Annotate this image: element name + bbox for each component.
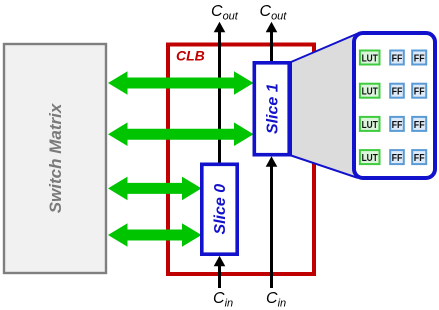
FF cell F4B (412, 150, 426, 164)
LUT cell L3 (360, 117, 380, 131)
wire green bus 3 (Switch Matrix to Slice 0) (108, 177, 202, 201)
svg-text:FF: FF (392, 52, 403, 64)
wedge from Slice 1 to detail view (291, 34, 357, 178)
svg-text:LUT: LUT (362, 119, 379, 131)
slice S0 box (202, 164, 237, 254)
svg-text:Switch Matrix: Switch Matrix (46, 102, 65, 213)
detail view box (354, 33, 435, 178)
wire C_out right (270, 30, 273, 62)
FF cell F2A (390, 84, 404, 98)
wire green bus 4 (Switch Matrix to Slice 0) (108, 223, 202, 247)
svg-text:FF: FF (392, 152, 403, 164)
svg-text:LUT: LUT (362, 152, 379, 164)
LUT cell L1 (360, 51, 380, 65)
wire C_in right (270, 164, 273, 288)
LUT cell L4 (360, 150, 380, 164)
svg-text:FF: FF (414, 152, 425, 164)
FF cell F4A (390, 150, 404, 164)
FF cell F3B (412, 117, 426, 131)
CLB box (168, 45, 314, 275)
switch matrix box (4, 44, 106, 273)
svg-text:LUT: LUT (362, 86, 379, 98)
svg-text:FF: FF (392, 119, 403, 131)
svg-text:FF: FF (414, 52, 425, 64)
svg-text:CLB: CLB (176, 48, 205, 64)
svg-text:FF: FF (414, 86, 425, 98)
wire green bus 1 (Switch Matrix to Slice 1) (108, 71, 254, 95)
svg-text:Slice 1: Slice 1 (264, 83, 281, 134)
wire C_out left (218, 30, 221, 164)
svg-text:LUT: LUT (362, 52, 379, 64)
LUT cell L2 (360, 84, 380, 98)
svg-text:Slice 0: Slice 0 (212, 184, 229, 235)
svg-text:FF: FF (414, 119, 425, 131)
wire C_in left (218, 264, 221, 288)
svg-text:FF: FF (392, 86, 403, 98)
slice S1 box (254, 63, 289, 155)
FF cell F1A (390, 51, 404, 65)
wire green bus 2 (Switch Matrix to Slice 1) (108, 122, 254, 146)
FF cell F1B (412, 51, 426, 65)
FF cell F2B (412, 84, 426, 98)
FF cell F3A (390, 117, 404, 131)
